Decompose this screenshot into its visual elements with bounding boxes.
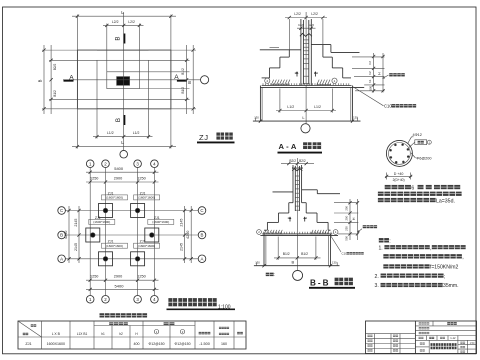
plan title ji chu ping mian tu 1:100 — [168, 298, 177, 306]
A-A right extension lines — [352, 56, 385, 58]
table group header pei jin — [164, 322, 169, 325]
svg-text:1:50: 1:50 — [470, 342, 475, 345]
svg-text:H: H — [135, 332, 138, 336]
svg-text:;: ; — [444, 274, 445, 280]
B-B column stirrup rungs — [295, 175, 299, 177]
title block outer frame — [366, 321, 477, 354]
B-B left small label shuoming — [266, 273, 270, 276]
ZJ bottom dimension line L1/2 — [93, 136, 153, 138]
svg-text:(1600*1600): (1600*1600) — [138, 196, 155, 200]
plan top segment dimensions 1250 2900 1250 — [86, 181, 159, 183]
plan top overall dimension 5400 — [86, 171, 159, 173]
ZJ top dimension line L2/2 — [103, 24, 144, 26]
svg-text:C10: C10 — [342, 252, 348, 256]
table diagonal header cell — [18, 321, 42, 337]
A-A right overall H dimension — [382, 53, 384, 93]
B-B centerline — [296, 158, 298, 270]
svg-text:B2/2: B2/2 — [289, 159, 296, 163]
footing ZJ1 #5 column dot — [103, 257, 108, 262]
A-A rebar hook arrow a — [296, 72, 298, 77]
svg-text:(1600*1600): (1600*1600) — [106, 196, 123, 200]
A-A centerline — [305, 12, 307, 124]
svg-text:3: 3 — [136, 161, 139, 166]
B-B rebar hook arrow a — [289, 217, 291, 221]
svg-text:L1/2: L1/2 — [133, 131, 140, 135]
svg-text:-1.500: -1.500 — [199, 342, 210, 346]
A-A footing slab bottom / overall L dimension — [253, 120, 361, 122]
plan bottom segment dimensions 1250 2900 1250 — [86, 279, 159, 281]
svg-text:400: 400 — [134, 342, 140, 346]
svg-text:2145: 2145 — [74, 243, 78, 251]
svg-text:B: B — [115, 118, 122, 122]
B-B footing slab edges and bed layer edges — [263, 234, 265, 266]
B-B rebar hook arrow b — [304, 217, 306, 221]
A-A ground line right stepped — [311, 44, 331, 46]
svg-text:1600X1600: 1600X1600 — [47, 342, 65, 346]
B-B hatched bar zone right callout 1 — [333, 230, 338, 235]
svg-text:500: 500 — [344, 236, 348, 241]
plan grid line axis 4 — [153, 168, 155, 296]
svg-text:1: 1 — [335, 230, 337, 234]
B-B ground line right stepped — [302, 189, 318, 191]
svg-text:2: 2 — [258, 230, 260, 234]
svg-text:(1600*1600): (1600*1600) — [106, 244, 123, 248]
B-B bottom axis bubble — [293, 270, 303, 280]
plan axis bubble 2 bottom — [102, 296, 110, 304]
svg-text:B: B — [38, 79, 43, 82]
svg-text:1250: 1250 — [137, 275, 145, 279]
footing ZJ1 #3 outline — [86, 228, 100, 242]
svg-text:L X B: L X B — [52, 332, 61, 336]
svg-text:130: 130 — [332, 260, 337, 264]
svg-text:1250: 1250 — [90, 177, 98, 181]
title block project name liu jiao ting — [447, 322, 450, 325]
svg-text:(1600*1600): (1600*1600) — [152, 220, 169, 224]
plan axis bubble B right — [198, 231, 206, 239]
svg-text:A: A — [69, 74, 74, 81]
reinforcement table grid — [18, 321, 246, 349]
A-A inner dimension L1/2 — [276, 110, 336, 112]
A-A right brick steps — [322, 45, 324, 58]
svg-text:L1/2: L1/2 — [287, 105, 294, 109]
plan axis bubble B left — [58, 231, 66, 239]
title block left signature grid — [366, 333, 416, 335]
B-B ground line left — [273, 191, 294, 193]
title block right info grid — [415, 325, 476, 327]
column detail leader to main bars label 4phi12 — [408, 137, 412, 144]
svg-text:C10: C10 — [384, 104, 392, 109]
svg-text:3: 3 — [136, 297, 139, 302]
title block designer cells — [428, 340, 430, 353]
B-B inner dimension B1/2 — [274, 257, 321, 259]
svg-text:2(D+40): 2(D+40) — [393, 178, 405, 182]
svg-text:La=35d.: La=35d. — [436, 198, 455, 204]
svg-text:B1/2: B1/2 — [53, 90, 57, 97]
svg-text:(1600*1600): (1600*1600) — [138, 244, 155, 248]
A-A column rebar bars — [302, 20, 304, 85]
ZJ footing step-1 rectangle — [107, 72, 140, 89]
svg-text:5400: 5400 — [115, 284, 125, 289]
svg-text:B: B — [115, 37, 122, 41]
plan axis bubble 2 top — [102, 160, 110, 168]
general note line 3 lap length — [378, 198, 384, 202]
A-A hatched bar zone left with callout 2 — [265, 78, 270, 83]
ZJ left dimension lines B2/2 B1/2 — [50, 45, 52, 114]
title block scale/date/number cells — [467, 340, 469, 353]
B-B right overall H dimension — [357, 199, 359, 240]
svg-text:Φ12@150: Φ12@150 — [148, 342, 164, 346]
svg-text:L: L — [121, 140, 124, 145]
svg-text:130: 130 — [353, 116, 358, 120]
B-B right dimension chain 200 200 250 500 — [349, 199, 351, 240]
svg-text:2900: 2900 — [114, 275, 122, 279]
ZJ section cut mark A left — [64, 80, 74, 82]
B-B right extension lines — [334, 202, 358, 204]
A-A right dimension chain h2 h1 500 — [373, 53, 375, 93]
B-B C10 bed layer leader and label — [331, 236, 342, 253]
footing ZJ1 #6 column dot — [135, 257, 140, 262]
A-A bottom axis bubble — [301, 124, 310, 133]
svg-text:L: L — [121, 10, 124, 15]
svg-text:130: 130 — [255, 260, 260, 264]
title block drawing-type row — [426, 336, 428, 341]
svg-text:B-B: B-B — [310, 278, 331, 287]
plan axis bubble 4 top — [151, 160, 159, 168]
A-A top dim extension lines — [288, 19, 290, 50]
plan right overall dimension 4290 — [190, 206, 192, 263]
svg-text:B1/2: B1/2 — [181, 87, 185, 94]
svg-text:250: 250 — [344, 226, 348, 231]
B-B column edges — [292, 165, 294, 203]
A-A footing slab top with rebar ticks — [262, 85, 352, 87]
svg-text:200: 200 — [344, 206, 348, 211]
column detail diameter dimension D+40 — [385, 175, 412, 177]
svg-text:1250: 1250 — [137, 177, 145, 181]
B-B bed layer label — [363, 225, 366, 228]
svg-text:ZJ1: ZJ1 — [25, 342, 31, 346]
note item 1 line 2 — [383, 254, 388, 258]
B-B column rebar bars — [294, 166, 296, 211]
ZJ left overall dimension B — [43, 45, 45, 114]
svg-text:B2/2: B2/2 — [299, 159, 306, 163]
svg-text:1: 1 — [317, 71, 319, 75]
ZJ top dimension line L — [72, 15, 176, 17]
A-A column break line — [300, 33, 312, 36]
B-B footing slab bottom / overall B dimension — [254, 265, 340, 267]
svg-text:(1600*1600): (1600*1600) — [93, 220, 110, 224]
svg-text:2145: 2145 — [180, 243, 184, 251]
A-A C10 bed layer leader and label — [353, 87, 384, 106]
plan axis bubble 1 top — [86, 160, 94, 168]
reinforcement table title — [100, 313, 105, 317]
B-B column break line — [292, 168, 302, 171]
A-A left brick steps — [288, 50, 290, 57]
svg-text:L: L — [302, 115, 305, 120]
svg-text:2145: 2145 — [74, 219, 78, 227]
plan grid line axis A — [65, 258, 198, 260]
column detail main bars label box zhu jin — [415, 140, 427, 145]
ZJ axis bubble bottom — [120, 150, 128, 158]
svg-text:200: 200 — [344, 215, 348, 220]
footing ZJ1 #5 outline — [99, 252, 113, 266]
svg-text:4Φ12: 4Φ12 — [413, 133, 422, 137]
table group header ji chu chi cun — [109, 322, 113, 325]
ZJ horizontal centerline A-A — [63, 79, 201, 81]
A-A column stirrup rungs — [303, 39, 308, 41]
plan axis bubble 3 bottom — [134, 296, 142, 304]
svg-text:,: , — [430, 245, 431, 251]
column section detail tie circle — [389, 143, 411, 165]
A-A rebar hook arrow b — [314, 72, 316, 77]
svg-text:B1/2: B1/2 — [181, 68, 185, 75]
ZJ axis bubble right — [201, 76, 209, 84]
svg-text:D +40: D +40 — [394, 172, 404, 176]
svg-text:1.: 1. — [379, 245, 383, 251]
svg-text:6: 6 — [411, 185, 414, 191]
svg-text:1250: 1250 — [90, 275, 98, 279]
plan axis bubble C left — [58, 207, 66, 215]
A-A footing slab edges and bed layer edges — [259, 86, 261, 122]
column section rebar dots — [407, 156, 409, 158]
footing ZJ1 #1 column dot — [103, 208, 108, 213]
A-A hatched bar zone right with callout 1 — [332, 78, 337, 83]
footing ZJ1 #4 outline — [145, 228, 159, 242]
svg-text:h2: h2 — [119, 332, 123, 336]
svg-text:h2: h2 — [368, 61, 372, 65]
svg-text:4: 4 — [153, 297, 156, 302]
A-A top dimension L2/2 — [285, 17, 327, 19]
plan grid line axis 2 — [105, 168, 107, 296]
svg-text:4: 4 — [153, 161, 156, 166]
svg-text:B1/2: B1/2 — [301, 252, 308, 256]
plan grid line axis C — [65, 210, 198, 212]
ZJ section cut mark B top — [123, 34, 125, 44]
plan grid line axis 1 — [89, 168, 91, 296]
plan left segment dimensions 2145 2145 — [78, 206, 80, 263]
footing ZJ1 #3 column dot — [91, 233, 96, 238]
svg-text:ZJ: ZJ — [199, 133, 209, 142]
svg-text:L2/2: L2/2 — [112, 20, 119, 24]
svg-text:B2/2: B2/2 — [53, 63, 57, 70]
footing ZJ1 #4 column dot — [150, 233, 155, 238]
svg-text:A: A — [174, 74, 179, 81]
svg-text:B1/2: B1/2 — [283, 252, 290, 256]
svg-text:2: 2 — [266, 79, 268, 83]
svg-text:2145: 2145 — [180, 219, 184, 227]
svg-text:4290: 4290 — [64, 231, 68, 239]
plan right segment dimensions 2145 2145 — [184, 206, 186, 263]
plan axis bubble 1 bottom — [86, 296, 94, 304]
svg-text:Φ6@200: Φ6@200 — [416, 157, 431, 161]
title block drawing name ji chu ping mian tu — [457, 340, 459, 353]
svg-text:C: C — [200, 208, 203, 213]
footing ZJ1 #2 column dot — [135, 208, 140, 213]
ZJ bottom dimension line L — [72, 146, 176, 148]
svg-text:A-A: A-A — [279, 142, 299, 151]
svg-text:H: H — [352, 217, 356, 220]
ZJ section cut mark A right — [177, 80, 187, 82]
svg-text:L2/2: L2/2 — [128, 20, 135, 24]
svg-text:L2/2: L2/2 — [311, 12, 318, 16]
column detail tie label phi6@200 — [411, 153, 416, 158]
B-B left brick steps — [289, 202, 293, 204]
A-A column edges — [300, 19, 302, 86]
A-A outdoor ground label — [389, 73, 393, 76]
plan grid line axis 3 — [137, 168, 139, 296]
svg-text:,: , — [462, 255, 463, 261]
svg-text:h1: h1 — [368, 79, 372, 83]
svg-text:2: 2 — [104, 297, 107, 302]
ZJ column (filled) — [117, 77, 130, 86]
svg-text:C: C — [60, 208, 63, 213]
ZJ footing step-2 rectangle — [97, 60, 149, 99]
svg-text:2900: 2900 — [114, 177, 122, 181]
svg-text:1-12: 1-12 — [450, 336, 456, 340]
svg-text:L1/2: L1/2 — [314, 105, 321, 109]
A-A ground line left — [260, 49, 301, 51]
plan bottom overall dimension 5400 — [86, 288, 159, 290]
ZJ footing outer slab rectangle — [77, 50, 170, 109]
svg-text:4290: 4290 — [186, 231, 190, 239]
svg-text:A: A — [201, 257, 204, 262]
svg-text::: : — [274, 272, 275, 277]
svg-text:130: 130 — [254, 116, 259, 120]
plan left overall dimension 4290 — [68, 206, 70, 263]
plan axis bubble A right — [198, 255, 206, 263]
svg-text:1: 1 — [334, 79, 336, 83]
column section detail outer circle — [386, 140, 412, 166]
plan axis bubble A left — [58, 255, 66, 263]
svg-text:2.: 2. — [375, 274, 379, 280]
B-B right brick steps — [302, 202, 307, 204]
plan axis bubble 3 top — [134, 160, 142, 168]
svg-text:1: 1 — [89, 297, 92, 302]
svg-text::: : — [389, 239, 391, 245]
svg-text:B: B — [187, 81, 192, 84]
note item 1 line 3 — [383, 264, 388, 268]
svg-text:5400: 5400 — [114, 166, 124, 171]
svg-text:f=150KN/m2: f=150KN/m2 — [430, 265, 459, 271]
svg-text:Φ12@150: Φ12@150 — [174, 342, 190, 346]
notes heading shuoming — [379, 238, 384, 242]
plan axis bubble 4 bottom — [151, 296, 159, 304]
plan grid line axis B — [65, 234, 198, 236]
svg-text:160: 160 — [221, 342, 227, 346]
ZJ right overall dimension B — [192, 45, 194, 114]
footing ZJ1 #1 outline — [99, 204, 113, 218]
svg-text:B: B — [291, 260, 294, 265]
svg-text:2: 2 — [104, 161, 107, 166]
svg-text:1: 1 — [306, 217, 308, 220]
ZJ section cut mark B bottom — [123, 115, 125, 125]
svg-text:L2/2: L2/2 — [294, 12, 301, 16]
footing ZJ1 #2 outline — [131, 204, 145, 218]
svg-text:35mm.: 35mm. — [443, 283, 459, 289]
general note line 1 seismic — [385, 185, 391, 189]
svg-text:L1X B1: L1X B1 — [77, 332, 88, 336]
B-B hatched bar zone left callout 2 — [257, 230, 262, 235]
svg-text:L1/2: L1/2 — [107, 131, 114, 135]
title block main divider — [414, 321, 416, 354]
svg-text:3.: 3. — [375, 283, 379, 289]
svg-text:A: A — [60, 257, 63, 262]
svg-text:B: B — [201, 233, 204, 238]
footing ZJ1 #6 outline — [131, 252, 145, 266]
svg-text:B: B — [60, 233, 63, 238]
svg-text:1: 1 — [89, 161, 92, 166]
plan axis bubble C right — [198, 207, 206, 215]
svg-text:H: H — [378, 72, 382, 75]
svg-text:500: 500 — [368, 85, 372, 90]
B-B footing slab top with rebar ticks — [262, 233, 332, 235]
svg-text:h1: h1 — [101, 332, 105, 336]
ZJ right dimension lines B1/2 — [186, 45, 188, 114]
svg-text:h2: h2 — [368, 71, 372, 75]
ZJ vertical centerline B-B — [123, 12, 125, 150]
general note line 2 column bars welded — [378, 192, 384, 196]
